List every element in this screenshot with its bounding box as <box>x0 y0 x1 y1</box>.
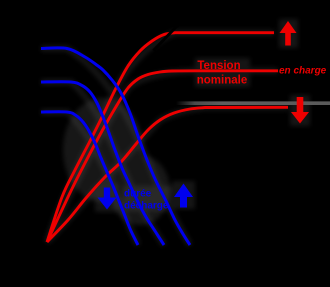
red up arrow (right end of top curve) <box>280 21 297 46</box>
red curve R2 (middle, saturating) <box>47 71 278 242</box>
blue down arrow (bottom left of center) <box>98 188 117 210</box>
red curve R1 (top, saturating) <box>47 33 274 242</box>
blue curve B1 (top-left flat, falls to x=190) <box>41 48 190 245</box>
black curve crossing R1 <box>154 26 178 51</box>
red down arrow (right end of bottom curve) <box>291 97 309 124</box>
svg-text:Tension: Tension <box>197 60 240 72</box>
svg-text:durée: durée <box>124 189 152 200</box>
red curve R3 (bottom, saturating) <box>47 107 288 242</box>
blue up arrow (bottom right of center) <box>174 184 193 208</box>
svg-text:en charge: en charge <box>279 66 327 77</box>
extra haze at dense crossing area <box>63 98 170 225</box>
blue curve B2 (middle-left flat, falls to x=164) <box>41 82 164 245</box>
blue curve B3 (bottom-left flat, falls to x=138) <box>41 112 138 245</box>
svg-text:décharge: décharge <box>124 201 169 212</box>
svg-text:nominale: nominale <box>197 75 247 87</box>
